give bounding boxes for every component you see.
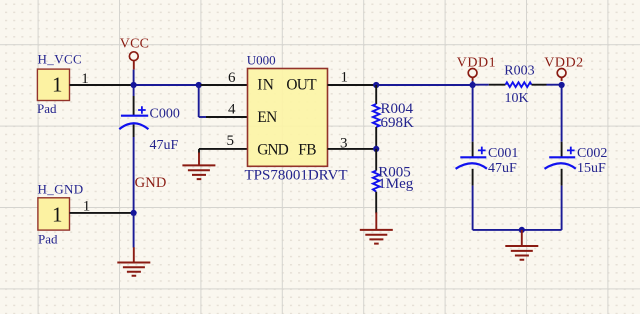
power port VDD2 — [544, 56, 583, 81]
svg-text:5: 5 — [227, 133, 235, 149]
wire node H down to ground — [133, 213, 135, 248]
svg-text:H_VCC: H_VCC — [38, 52, 83, 67]
capacitor C000 — [119, 106, 148, 129]
svg-text:C001: C001 — [488, 146, 518, 161]
junction node C — [373, 82, 379, 88]
junction node B — [196, 82, 202, 88]
capacitor C001 — [456, 147, 487, 169]
junction node A — [131, 82, 137, 88]
junction node H — [131, 210, 137, 216]
capacitor C000 pin down + wire to node H — [133, 125, 135, 213]
pad H_VCC — [37, 69, 69, 100]
svg-text:1Meg: 1Meg — [378, 176, 413, 192]
svg-text:Pad: Pad — [37, 101, 57, 116]
ground (below R005) — [360, 212, 393, 243]
junction node E — [470, 82, 476, 88]
svg-text:EN: EN — [257, 109, 277, 126]
svg-text:H_GND: H_GND — [38, 181, 84, 196]
capacitor C002 pin down — [561, 169, 563, 230]
svg-text:3: 3 — [340, 136, 348, 152]
svg-text:6: 6 — [228, 70, 236, 86]
IC U000 pin 4 (EN) — [199, 101, 248, 117]
svg-text:Pad: Pad — [38, 231, 58, 246]
wire VCC stub down to node A — [133, 70, 135, 85]
resistor R004 — [373, 85, 380, 149]
svg-text:10K: 10K — [505, 91, 529, 106]
svg-text:1: 1 — [83, 198, 91, 214]
ground (bottom rail) — [505, 230, 538, 260]
wire node C to node E — [376, 84, 472, 86]
wire bottom rail C001 to C002 — [473, 229, 562, 231]
IC U000 pin 5 (GND) — [199, 133, 248, 154]
pad H_GND — [38, 198, 70, 230]
capacitor C001 pin down — [472, 169, 474, 230]
capacitor C000 pin up — [133, 85, 135, 116]
pad H_VCC pin 1 (wire to node A) — [70, 71, 135, 87]
svg-text:698K: 698K — [381, 115, 415, 131]
svg-text:GND: GND — [257, 142, 288, 159]
wire node B down to EN — [198, 85, 200, 117]
svg-text:TPS78001DRVT: TPS78001DRVT — [245, 168, 348, 184]
svg-text:1: 1 — [52, 202, 63, 226]
ground (pin 5) — [182, 153, 215, 180]
IC U000 pin 1 (OUT) — [328, 70, 375, 86]
resistor R003 — [473, 82, 562, 87]
svg-text:1: 1 — [341, 70, 349, 86]
svg-text:1: 1 — [81, 71, 89, 87]
junction node G — [519, 227, 525, 233]
IC U000 pin 6 (IN) — [201, 70, 248, 86]
IC U000 body — [248, 69, 328, 167]
svg-text:R003: R003 — [504, 64, 534, 79]
junction node D — [373, 146, 379, 152]
svg-text:VCC: VCC — [120, 37, 149, 52]
power port VDD1 — [457, 56, 496, 81]
pad H_GND pin 1 (wire to node H) — [70, 198, 135, 214]
wire VDD1 stub — [472, 81, 474, 85]
svg-text:GND: GND — [135, 175, 167, 191]
svg-text:VDD1: VDD1 — [457, 56, 496, 71]
wire FB to node D — [373, 148, 376, 150]
ground (below H_GND node) — [117, 247, 150, 275]
svg-text:1: 1 — [52, 73, 63, 97]
svg-text:FB: FB — [298, 142, 316, 159]
svg-text:U000: U000 — [247, 53, 276, 68]
svg-text:OUT: OUT — [286, 77, 317, 94]
wire VDD1 down to C001 — [472, 85, 474, 157]
wire node A to node B — [134, 84, 199, 86]
svg-text:15uF: 15uF — [577, 161, 606, 176]
svg-text:47uF: 47uF — [488, 161, 517, 176]
IC U000 pin 3 (FB) — [328, 136, 374, 152]
svg-text:IN: IN — [257, 77, 274, 94]
wire VDD2 down to C002 — [561, 85, 563, 157]
capacitor C002 — [545, 147, 576, 169]
junction node F — [559, 82, 565, 88]
svg-text:C000: C000 — [150, 106, 180, 121]
wire pin1 to node C — [374, 84, 376, 86]
svg-text:C002: C002 — [577, 146, 607, 161]
svg-text:47uF: 47uF — [150, 138, 179, 153]
svg-text:4: 4 — [228, 101, 236, 117]
power port VCC — [120, 37, 149, 70]
resistor R005 — [373, 149, 380, 214]
